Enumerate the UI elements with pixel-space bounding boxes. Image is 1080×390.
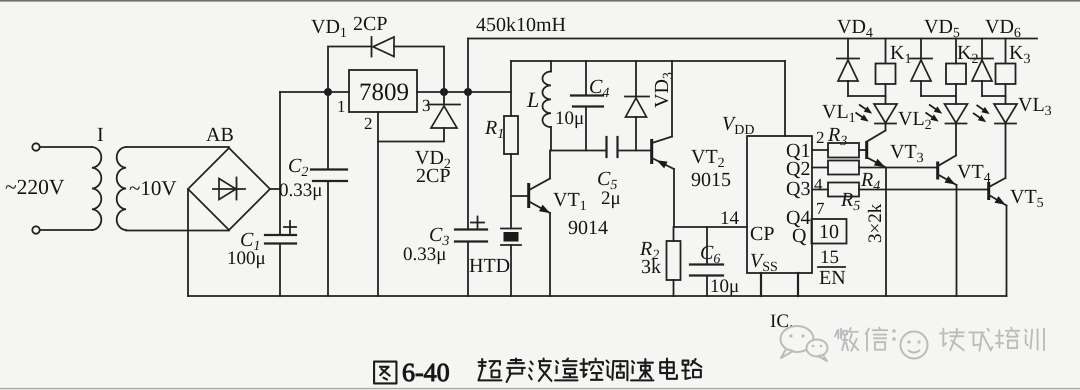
- wire secondary bottom to bridge: [126, 230, 229, 232]
- transistor VT2: [650, 139, 653, 164]
- resistor R4: [828, 161, 859, 175]
- transformer T primary winding: [92, 147, 101, 230]
- LED VL1: [874, 104, 897, 123]
- diode VD3 (zener): [635, 61, 637, 97]
- caption 声: [507, 359, 525, 382]
- diode VD2: [443, 92, 445, 105]
- capacitor C1 plates: [265, 234, 296, 236]
- watermark colon marks: [892, 329, 896, 333]
- caption 控: [581, 359, 603, 380]
- wire C1 to ground: [279, 244, 281, 297]
- svg-text:HTD: HTD: [469, 255, 510, 277]
- svg-text:L: L: [526, 87, 539, 112]
- wire VT1 emitter to ground: [549, 213, 551, 296]
- svg-text:2CP: 2CP: [416, 165, 450, 187]
- wire +rail to 7809 input: [280, 91, 349, 93]
- capacitor C4: [585, 61, 587, 96]
- wire VT4 emitter to ground: [956, 185, 958, 296]
- wire VT1 collector: [549, 151, 551, 179]
- resistor R3: [828, 143, 859, 158]
- svg-text:4: 4: [814, 175, 823, 194]
- wire secondary top to bridge: [126, 146, 229, 148]
- node VD2 top (dot): [440, 88, 448, 96]
- svg-text:10: 10: [819, 221, 839, 243]
- top page border: [0, 0, 1080, 2]
- bridge rectifier AB diamond: [188, 148, 270, 230]
- diode VD5: [920, 39, 922, 59]
- diode VD4: [847, 39, 849, 59]
- wire R1 to VT1 base node: [510, 154, 512, 196]
- wire base node down to HTD: [510, 196, 512, 229]
- wire tank bottom: [551, 150, 606, 152]
- svg-text:7809: 7809: [359, 79, 409, 106]
- wire base node to VT1: [511, 195, 527, 197]
- svg-text:AB: AB: [206, 124, 234, 146]
- terminal bottom-left: [32, 226, 39, 233]
- wire primary top: [40, 146, 92, 148]
- svg-text:100μ: 100μ: [227, 248, 266, 269]
- capacitor C6: [706, 227, 708, 265]
- wire R3 to VT3 base: [859, 149, 866, 151]
- svg-text:2CP: 2CP: [353, 13, 387, 35]
- caption 波: [529, 359, 551, 381]
- inductor L: [550, 61, 552, 72]
- svg-text:2: 2: [816, 128, 825, 147]
- svg-text:Q3: Q3: [786, 178, 810, 200]
- wire C3 branch: [467, 92, 469, 230]
- capacitor C5: [605, 137, 607, 157]
- transistor VT3: [865, 141, 868, 159]
- wire primary bottom: [40, 229, 92, 231]
- bridge inner diode: [213, 188, 245, 190]
- svg-text:0.33μ: 0.33μ: [279, 180, 322, 201]
- relay K3: [1005, 39, 1007, 64]
- svg-text:CP: CP: [750, 223, 774, 245]
- svg-text:10μ: 10μ: [710, 276, 739, 297]
- wire VT3 emitter to ground: [885, 168, 887, 297]
- node input (dot): [324, 88, 332, 96]
- wire 7809 output: [417, 91, 511, 93]
- wire VT5 emitter to ground: [1006, 206, 1008, 297]
- wire Q3 out: [812, 189, 828, 191]
- pin10 box: [812, 219, 847, 244]
- wire VL2 to VT4: [955, 124, 957, 156]
- caption 调: [607, 361, 628, 381]
- svg-text:3k: 3k: [641, 256, 661, 278]
- svg-text:2: 2: [364, 114, 373, 133]
- resistor R5: [828, 183, 859, 197]
- wire bridge plus corner: [270, 188, 280, 190]
- caption 超: [479, 359, 502, 380]
- transformer T secondary winding: [117, 147, 126, 230]
- transistor VT4: [936, 162, 939, 180]
- wire VD6 to K3 node: [982, 95, 1006, 97]
- wire bridge minus corner down to ground: [187, 189, 189, 296]
- wire VT2 emitter down: [673, 169, 675, 227]
- transistor VT1: [527, 183, 530, 208]
- svg-text:3: 3: [422, 96, 431, 115]
- svg-text:3×2k: 3×2k: [865, 203, 886, 243]
- wire 450k riser: [467, 39, 469, 93]
- caption 速: [631, 359, 653, 380]
- wire C3 to ground: [467, 242, 469, 297]
- resistor R2: [673, 227, 675, 241]
- relay K1: [885, 39, 887, 64]
- bottom page border: [0, 388, 1080, 390]
- transducer HTD: [501, 228, 521, 230]
- svg-text:Q2: Q2: [786, 158, 810, 180]
- watermark 技: [940, 329, 964, 351]
- LED VL3: [994, 104, 1017, 123]
- wire R4 to VT4 base: [859, 167, 937, 169]
- wire C1 branch up to +rail: [279, 92, 281, 235]
- wire IC ground pin 1: [760, 273, 762, 296]
- wire C2 branch: [327, 92, 329, 170]
- svg-text:2μ: 2μ: [601, 188, 621, 209]
- svg-text:450k10mH: 450k10mH: [476, 14, 566, 36]
- wire Q1 out: [812, 149, 828, 151]
- wire C2 to ground: [327, 181, 329, 296]
- wire VT2 collector to rail: [671, 61, 673, 137]
- terminal top-left: [32, 143, 39, 150]
- caption 电: [660, 359, 677, 379]
- watermark wechat bubbles logo: [781, 326, 814, 352]
- wire VD1 bypass loop: [328, 47, 371, 93]
- watermark 信: [866, 328, 888, 351]
- svg-text:I: I: [97, 124, 104, 146]
- EN overline: [818, 266, 845, 268]
- caption 路: [682, 359, 701, 379]
- caption 图: [374, 362, 396, 384]
- watermark 培: [996, 328, 1019, 349]
- wire 7809 pin2 to ground: [377, 112, 379, 296]
- svg-text:~10V: ~10V: [129, 176, 177, 200]
- IC box: [747, 136, 812, 273]
- wire 450k10mH rail: [468, 38, 1037, 40]
- svg-text:14: 14: [720, 208, 740, 229]
- wire VD4 to K1 node: [848, 95, 886, 97]
- watermark round logo: [901, 332, 928, 359]
- ground rail: [188, 295, 1007, 297]
- wire VL3 to VT5: [1005, 124, 1007, 179]
- LED VL2: [945, 104, 968, 123]
- capacitor C2 plates: [311, 168, 347, 170]
- svg-text:1: 1: [337, 97, 346, 116]
- diode VD6: [981, 39, 983, 59]
- svg-text:EN: EN: [819, 267, 846, 289]
- wire rail down to R1: [510, 61, 512, 116]
- wire R5 to VT5 base: [859, 189, 988, 191]
- C1 polarity +: [284, 226, 296, 228]
- wire VD5 to K2 node: [921, 95, 956, 97]
- transistor VT5: [987, 182, 990, 200]
- wire VL1 to VT3: [885, 124, 887, 131]
- wire HTD to ground: [510, 245, 512, 296]
- caption 遥: [555, 359, 577, 381]
- capacitor C3 plates: [455, 228, 487, 230]
- svg-text:10μ: 10μ: [555, 108, 584, 129]
- watermark 成: [969, 329, 992, 351]
- svg-text:9014: 9014: [568, 217, 608, 239]
- watermark 微: [835, 328, 858, 351]
- svg-text:~220V: ~220V: [5, 175, 65, 199]
- watermark 训: [1025, 329, 1044, 351]
- relay K2: [955, 39, 957, 64]
- wire Q2 out: [812, 167, 828, 169]
- regulator 7809 box: [349, 70, 417, 112]
- svg-text:15: 15: [820, 247, 839, 268]
- svg-text:7: 7: [816, 199, 825, 218]
- wire oscillator +rail: [511, 60, 785, 62]
- wire CP line to IC pin14: [674, 226, 747, 228]
- svg-text:Q: Q: [792, 225, 807, 247]
- diode VD1: [371, 37, 373, 57]
- svg-text:6-40: 6-40: [402, 358, 450, 387]
- resistor R1: [504, 116, 518, 154]
- node C3 top (dot): [464, 88, 472, 96]
- wire VDD from rail: [784, 61, 786, 136]
- C3 polarity +: [471, 222, 484, 224]
- wire IC ground pin 2: [797, 273, 799, 296]
- svg-text:9015: 9015: [691, 169, 731, 191]
- svg-text:0.33μ: 0.33μ: [403, 244, 446, 265]
